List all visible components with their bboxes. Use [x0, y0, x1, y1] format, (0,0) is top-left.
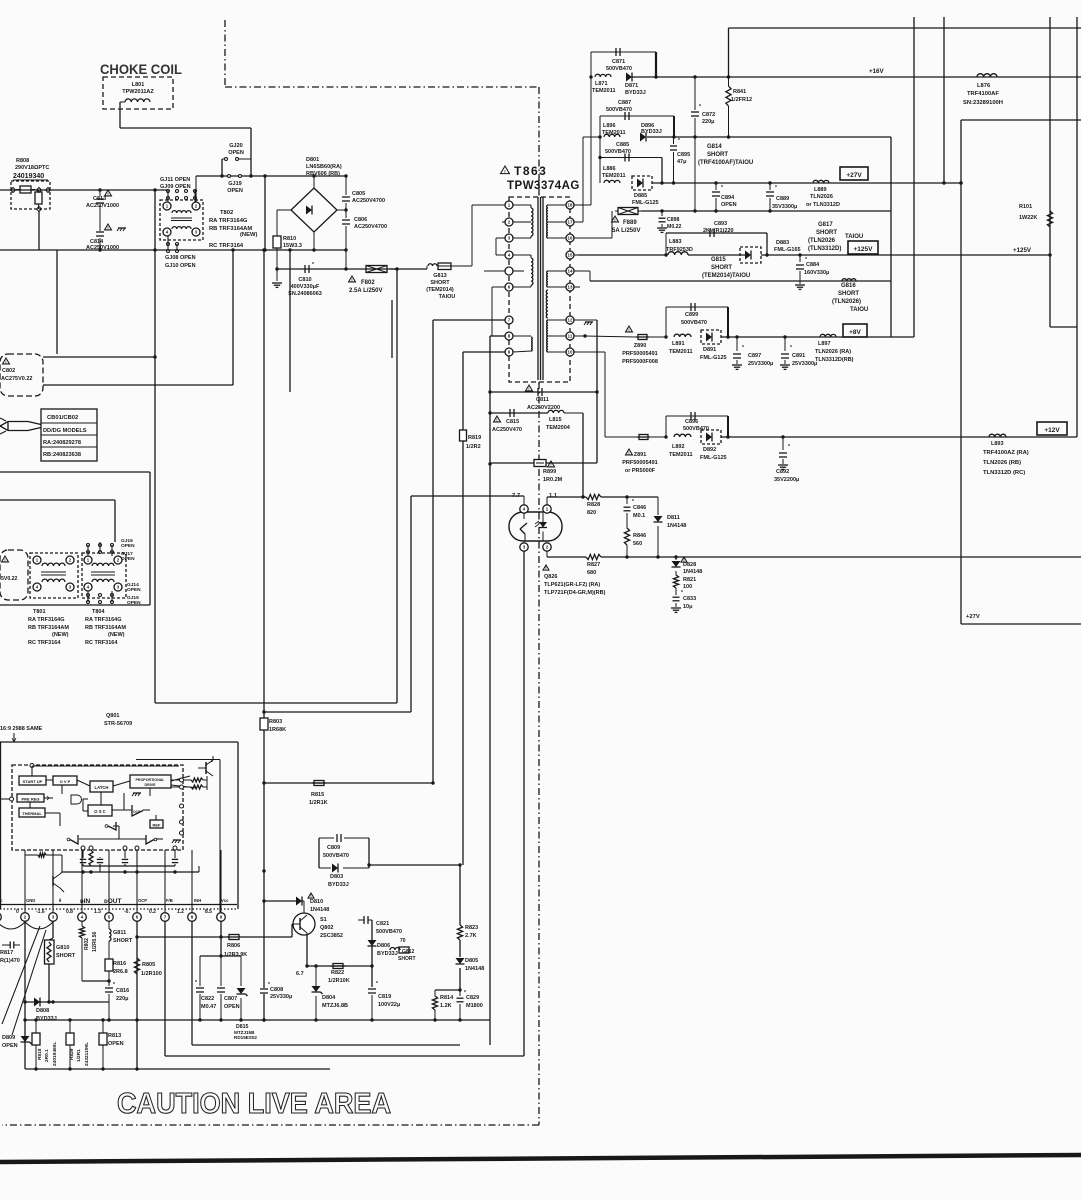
label G811: [113, 930, 133, 944]
svg-text:R821: R821: [683, 577, 696, 583]
svg-text:AC275V0.22: AC275V0.22: [1, 376, 33, 382]
svg-text:17: 17: [568, 220, 573, 225]
transformer T863 pin8: [505, 332, 513, 340]
svg-text:G814: G814: [707, 144, 722, 150]
inductor L876: [977, 74, 997, 77]
svg-text:R841: R841: [733, 89, 746, 95]
svg-text:!: !: [504, 169, 505, 174]
wire AC rail 1: [0, 189, 168, 191]
label R818 rotated: [37, 1042, 58, 1066]
wire snubber right: [369, 864, 460, 866]
svg-text:L801: L801: [132, 82, 145, 88]
capacitor C846: [624, 497, 635, 528]
diode D805: [456, 958, 465, 992]
svg-text:1/2R1K: 1/2R1K: [309, 800, 328, 806]
jumper Z891: [637, 435, 650, 440]
svg-text:C833: C833: [683, 596, 696, 602]
svg-text:M0.1: M0.1: [633, 513, 645, 519]
svg-text:!: !: [107, 191, 108, 196]
svg-text:2.7K: 2.7K: [465, 933, 477, 939]
wire C-block top row: [200, 954, 241, 957]
wire T802 bottom to rail: [167, 250, 169, 251]
table text models: [43, 428, 87, 434]
label R817: [0, 942, 20, 965]
resistor R819: [460, 430, 467, 865]
capacitor C892: [778, 437, 790, 469]
svg-text:LATCH: LATCH: [95, 785, 109, 790]
svg-text:TLN2026 (RB): TLN2026 (RB): [983, 460, 1021, 466]
label C898: [667, 217, 682, 230]
svg-text:C898: C898: [667, 217, 680, 223]
table CB01/CB02: [38, 409, 97, 461]
label D811: [667, 515, 686, 529]
label G810: [56, 945, 76, 959]
svg-text:PRF5000F008: PRF5000F008: [622, 359, 658, 365]
transformer T863 box: [509, 197, 570, 382]
svg-text:*: *: [312, 262, 314, 268]
svg-text:SHORT: SHORT: [398, 956, 416, 962]
svg-text:BYD33J: BYD33J: [625, 90, 646, 96]
label G816: [832, 283, 868, 313]
wire pin3 down: [523, 551, 525, 1056]
optocoupler pin1: [543, 505, 551, 513]
optocoupler pin4: [520, 505, 528, 513]
svg-text:500VB470: 500VB470: [683, 426, 709, 432]
label C810: [288, 277, 322, 297]
svg-text:F802: F802: [361, 280, 375, 286]
gate inv2: [67, 835, 78, 844]
svg-text:STR-56709: STR-56709: [104, 721, 132, 727]
diode D891 boxed: [701, 330, 721, 344]
svg-text:OPEN: OPEN: [227, 188, 243, 194]
label D883: [774, 240, 801, 253]
svg-text:820: 820: [587, 510, 596, 516]
svg-text:C891: C891: [792, 353, 805, 359]
capacitor C897: [732, 337, 744, 369]
svg-text:GJ11 OPEN: GJ11 OPEN: [160, 177, 190, 183]
svg-text:CAUTION LIVE AREA: CAUTION LIVE AREA: [117, 1088, 391, 1120]
svg-text:D806: D806: [377, 943, 390, 949]
capacitor C898: [657, 211, 667, 232]
label G815: [702, 257, 750, 279]
svg-text:TEM2011: TEM2011: [602, 130, 626, 136]
svg-text:SHORT: SHORT: [56, 953, 76, 959]
svg-text:TAIOU: TAIOU: [439, 294, 456, 300]
label C809: [323, 845, 349, 859]
svg-text:-0.: -0.: [124, 909, 130, 915]
svg-text:*: *: [788, 444, 790, 450]
svg-text:or PR5000F: or PR5000F: [625, 468, 656, 474]
svg-text:C899: C899: [685, 312, 698, 318]
svg-text:C893: C893: [714, 221, 727, 227]
label C807: [224, 996, 240, 1010]
IC Q801 outer box: [0, 742, 238, 909]
T863 winding 14-13: [546, 271, 566, 318]
svg-text:10μ: 10μ: [683, 604, 692, 610]
svg-text:(TLN3312D): (TLN3312D): [808, 246, 841, 252]
label 1.1: [549, 493, 558, 499]
svg-text:C808: C808: [270, 987, 283, 993]
svg-text:400V330μF: 400V330μF: [291, 284, 320, 290]
svg-text:L871: L871: [595, 81, 608, 87]
svg-text:R817: R817: [0, 950, 13, 956]
svg-text:L815: L815: [549, 417, 562, 423]
svg-text:FML-G125: FML-G125: [700, 355, 727, 361]
transformer T863 pin17: [566, 218, 574, 226]
label D815: [234, 1024, 257, 1040]
wire pin14 G816 row: [574, 271, 891, 281]
svg-text:25V3300μ: 25V3300μ: [748, 361, 773, 367]
svg-text:+12V: +12V: [1044, 427, 1060, 434]
svg-text:C897: C897: [748, 353, 761, 359]
capacitor C811: [526, 385, 543, 396]
label G813: [426, 273, 455, 300]
inductor L871: [595, 74, 611, 77]
transformer T802 pin4: [163, 228, 171, 236]
svg-text:M1800: M1800: [466, 1003, 483, 1009]
inductor L896: [604, 134, 620, 137]
svg-text:RB:240823638: RB:240823638: [43, 452, 81, 458]
svg-text:L897: L897: [818, 341, 831, 347]
svg-text:2.5A L/250V: 2.5A L/250V: [349, 288, 382, 294]
svg-text:RB TRF3164AM: RB TRF3164AM: [85, 625, 126, 631]
transformer T801 windings: [41, 563, 66, 582]
label C891: [792, 353, 817, 367]
block PROPORTIONAL DRIVE: [130, 775, 171, 788]
block THERMAL: [19, 808, 45, 817]
svg-text:TLP621(GR-LF2) (RA): TLP621(GR-LF2) (RA): [544, 582, 600, 588]
svg-text:TLP721F(D4-GR,M)(RB): TLP721F(D4-GR,M)(RB): [544, 590, 606, 596]
svg-text:(TRF4100AF)TAIOU: (TRF4100AF)TAIOU: [698, 160, 753, 166]
svg-text:16: 16: [568, 236, 573, 241]
svg-text:C894: C894: [721, 195, 735, 201]
degauss inner wire: [0, 500, 115, 542]
svg-text:35V3300μ: 35V3300μ: [772, 204, 797, 210]
svg-text:T801: T801: [33, 609, 46, 615]
transformer T863 pin10: [566, 348, 574, 356]
svg-text:!: !: [4, 557, 5, 562]
svg-text:*: *: [376, 981, 378, 987]
wire choke left: [120, 102, 125, 109]
label D809: [2, 1035, 18, 1049]
transformer T863 pin7: [505, 316, 513, 324]
wire col x392: [391, 300, 393, 358]
svg-text:C829: C829: [466, 995, 479, 1001]
label C811: [527, 397, 560, 411]
label T801: [28, 609, 69, 646]
label D810: [308, 893, 329, 913]
label R813: [108, 1033, 124, 1047]
jumper R822: [331, 964, 345, 969]
label R814: [440, 995, 454, 1009]
wire pin16 riser: [574, 211, 612, 238]
fuse F802: [363, 266, 390, 273]
svg-text:1R0.2M: 1R0.2M: [543, 477, 563, 483]
svg-text:!: !: [528, 386, 529, 391]
live area boundary vertical (dash-dot): [2, 87, 539, 1125]
wire rail y712: [262, 710, 411, 713]
IC bottom internals wires: [25, 850, 221, 912]
wire R806 row: [137, 936, 292, 938]
IC transistor: [198, 756, 213, 776]
label 7.7: [512, 493, 520, 499]
svg-text:TEM2011: TEM2011: [669, 452, 693, 458]
svg-text:DD/DG MODELS: DD/DG MODELS: [43, 428, 87, 434]
capacitor C891: [780, 337, 792, 369]
wire R827 row: [547, 551, 1081, 559]
wire pin6 col: [135, 921, 138, 1069]
capacitor C809: [337, 834, 341, 842]
svg-text:C806: C806: [354, 217, 367, 223]
jumper pads above T802: [167, 190, 197, 203]
wire rail y703: [155, 702, 397, 704]
transformer T802 box: [160, 200, 203, 240]
label Z890: [622, 343, 658, 365]
T863 winding 12-10: [547, 320, 566, 352]
capacitor C809 loop: [319, 838, 371, 868]
label L886: [602, 166, 626, 179]
svg-text:ᴅOUT: ᴅOUT: [104, 898, 121, 905]
transformer T863 pin6: [505, 283, 513, 291]
svg-text:C822: C822: [201, 996, 214, 1002]
label D828: [681, 557, 702, 575]
svg-text:D811: D811: [667, 515, 680, 521]
jumper R815: [312, 781, 326, 786]
wire pin9 left: [463, 351, 505, 353]
resistor R808 box: [11, 181, 50, 209]
svg-text:R822: R822: [331, 970, 344, 976]
capacitor C833: [671, 590, 683, 612]
svg-text:1/2R2: 1/2R2: [466, 444, 481, 450]
wire +27V rail: [652, 181, 963, 184]
wire vert x1077: [1076, 17, 1078, 437]
svg-text:R815: R815: [311, 792, 324, 798]
jumper GJ19 pads: [228, 175, 242, 178]
label D885: [632, 193, 659, 206]
wire vert x914: [913, 17, 915, 337]
svg-text:D810: D810: [310, 899, 323, 905]
label C897: [748, 353, 773, 367]
fuse F889: [615, 208, 641, 215]
svg-text:TLN2026 (RA): TLN2026 (RA): [815, 349, 851, 355]
svg-text:2R0.1: 2R0.1: [44, 1049, 50, 1062]
capacitor C815 row: [490, 412, 548, 414]
svg-text:F/B: F/B: [166, 898, 173, 903]
label L897: [815, 341, 854, 363]
svg-text:(NEW): (NEW): [108, 632, 125, 638]
jumper Z890: [636, 335, 649, 340]
live area boundary (dash-dot): [225, 20, 539, 87]
warning Z891: [626, 449, 633, 455]
svg-text:24019460L: 24019460L: [52, 1042, 58, 1066]
svg-text:*: *: [721, 185, 723, 191]
wire vert x1050: [1050, 17, 1077, 327]
svg-text:!: !: [107, 225, 108, 230]
transformer T863 pin4: [505, 251, 513, 259]
diode D803: [332, 864, 338, 873]
svg-text:D883: D883: [776, 240, 789, 246]
label C894: [721, 195, 737, 208]
svg-text:1/2R100: 1/2R100: [141, 971, 162, 977]
wire pin8 left: [490, 335, 505, 337]
boxed label +27V: [840, 167, 868, 180]
wire pin9 col: [219, 921, 222, 956]
svg-text:L876: L876: [977, 83, 991, 89]
svg-text:OCP: OCP: [133, 810, 141, 814]
svg-text:C819: C819: [378, 994, 391, 1000]
svg-text:THERMAL: THERMAL: [22, 811, 42, 816]
label L893: [983, 441, 1029, 476]
gate opamp OCP: [132, 805, 143, 816]
wire pin5 col: [108, 921, 110, 929]
wire col x463: [462, 352, 464, 430]
svg-text:FML-G125: FML-G125: [700, 455, 727, 461]
capacitor C895: [670, 137, 680, 185]
svg-text:T802: T802: [220, 210, 233, 216]
wire pin2-1020: [23, 1002, 26, 1069]
svg-text:RC TRF3164: RC TRF3164: [85, 640, 118, 646]
svg-text:500VB470: 500VB470: [376, 929, 402, 935]
svg-text:MTZJ6.8B: MTZJ6.8B: [322, 1003, 348, 1009]
svg-text:R803: R803: [269, 719, 282, 725]
label C833: [683, 596, 696, 610]
svg-text:PROPORTIONAL: PROPORTIONAL: [136, 778, 166, 782]
svg-text:G817: G817: [818, 222, 833, 228]
svg-text:C815: C815: [506, 419, 519, 425]
svg-text:100V22μ: 100V22μ: [378, 1002, 400, 1008]
svg-text:SHORT: SHORT: [113, 938, 133, 944]
svg-text:(TEM2014)TAIOU: (TEM2014)TAIOU: [702, 273, 750, 279]
svg-text:C807: C807: [224, 996, 237, 1002]
IC bus components: [25, 850, 178, 872]
capacitor C871 loop: [591, 52, 658, 79]
svg-text:D828: D828: [683, 562, 696, 568]
label Q826: [543, 565, 606, 596]
svg-text:!: !: [496, 417, 497, 422]
svg-text:RA TRF3164G: RA TRF3164G: [85, 617, 121, 623]
svg-text:OPEN: OPEN: [224, 1004, 240, 1010]
resistor R808 element: [16, 186, 35, 193]
jumper R806: [227, 935, 241, 940]
svg-text:GJ19: GJ19: [228, 181, 241, 187]
svg-text:680: 680: [587, 570, 596, 576]
label D804: [322, 995, 348, 1009]
resistor R808 labels: [13, 158, 49, 180]
svg-text:R814: R814: [440, 995, 454, 1001]
svg-text:C816: C816: [116, 988, 129, 994]
wire pin3 col: [52, 921, 54, 938]
svg-text:Q801: Q801: [106, 713, 119, 719]
svg-text:C896: C896: [685, 419, 698, 425]
svg-text:OPEN: OPEN: [721, 202, 737, 208]
capacitor C821: [358, 916, 372, 924]
zener D815: [237, 956, 248, 1020]
label +125V right: [1013, 247, 1032, 254]
capacitor C822: [195, 956, 204, 1020]
gate inv3: [146, 835, 157, 844]
svg-text:!: !: [550, 462, 551, 467]
wire D808 row: [25, 1000, 109, 1003]
svg-text:R813: R813: [108, 1033, 121, 1039]
transformer T802 pin2: [192, 202, 200, 210]
svg-text:BYD33J: BYD33J: [377, 951, 398, 957]
svg-text:TEM2011: TEM2011: [602, 173, 626, 179]
wire bridge column: [263, 176, 266, 252]
warning Z890: [626, 326, 633, 332]
capacitor C871: [606, 48, 632, 72]
svg-text:TAIOU: TAIOU: [850, 307, 868, 313]
svg-text:2SC3852: 2SC3852: [320, 933, 343, 939]
capacitor C813: [96, 188, 104, 251]
label GJ20: [228, 143, 244, 156]
svg-text:1N4148: 1N4148: [683, 569, 702, 575]
label T802 RC: [209, 243, 244, 249]
label C819: [378, 994, 400, 1008]
label T802 RA: [209, 218, 248, 224]
svg-text:1.2K: 1.2K: [440, 1003, 452, 1009]
svg-text:Z891: Z891: [634, 452, 647, 458]
wire R899 row: [490, 462, 597, 464]
svg-text:SN.24086063: SN.24086063: [288, 291, 322, 297]
IC bottom edge: [0, 904, 237, 906]
capacitor C813 labels: [86, 190, 119, 209]
transistor Q802: [292, 913, 315, 935]
capacitor C893: [703, 221, 734, 237]
svg-text:5V0.22: 5V0.22: [1, 576, 18, 582]
resistor R810: [273, 234, 302, 250]
svg-text:REF: REF: [153, 823, 162, 828]
label L815: [546, 417, 571, 431]
inductor G811: [109, 929, 111, 959]
T863 winding 4-6: [513, 255, 533, 287]
wire row y1045: [192, 1044, 460, 1046]
svg-text:TEM2004: TEM2004: [546, 425, 571, 431]
svg-text:(NEW): (NEW): [52, 632, 69, 638]
svg-text:L886: L886: [603, 166, 616, 172]
jumper G810 loop: [45, 938, 55, 1004]
svg-text:(TLN2026: (TLN2026: [808, 238, 836, 244]
svg-text:+8V: +8V: [849, 329, 861, 336]
svg-text:R808: R808: [16, 158, 29, 164]
svg-text:L892: L892: [672, 444, 685, 450]
svg-text:-1.6: -1.6: [36, 909, 45, 915]
svg-text:1.1: 1.1: [549, 493, 558, 499]
svg-text:C809: C809: [327, 845, 340, 851]
wire pin7 col: [164, 921, 166, 1056]
svg-text:TLN2026: TLN2026: [810, 194, 833, 200]
svg-text:G815: G815: [711, 257, 726, 263]
capacitor C805: [342, 174, 350, 210]
zener D809: [21, 1036, 32, 1052]
transformer T801 box: [30, 553, 78, 598]
svg-text:D803: D803: [330, 874, 343, 880]
svg-text:Q826: Q826: [544, 574, 557, 580]
svg-text:TLN3312D (RC): TLN3312D (RC): [983, 470, 1025, 476]
svg-text:+27V: +27V: [846, 172, 862, 179]
block PRE REG: [17, 794, 49, 802]
label T804: [85, 609, 126, 646]
svg-text:70: 70: [400, 938, 406, 944]
capacitor C884: [795, 255, 807, 289]
svg-text:OPEN: OPEN: [108, 1041, 124, 1047]
svg-text:13: 13: [568, 285, 573, 290]
svg-text:C805: C805: [352, 191, 365, 197]
transformer T804 box: [82, 553, 126, 598]
label R816: [113, 961, 128, 975]
capacitor C896 loop: [650, 416, 728, 439]
svg-text:1.3: 1.3: [94, 909, 101, 915]
svg-text:1.2: 1.2: [177, 909, 184, 915]
